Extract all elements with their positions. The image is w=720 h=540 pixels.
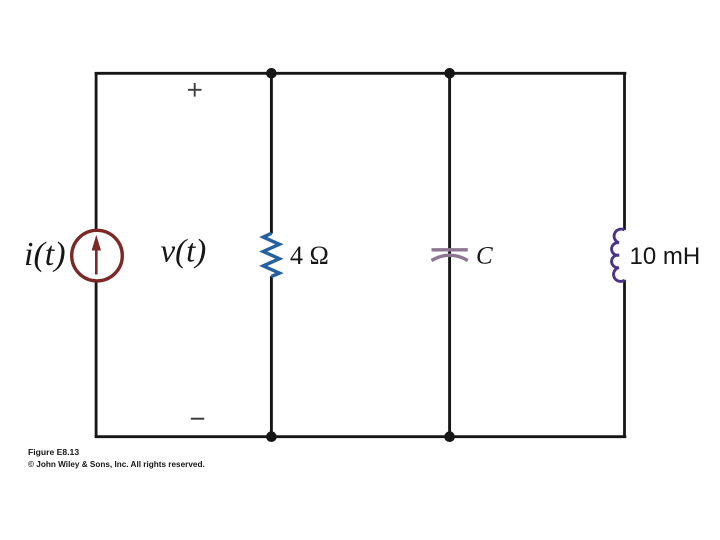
wire: bottom rail xyxy=(95,435,627,438)
node: top junction at capacitor branch xyxy=(444,68,455,79)
svg-text:i(t): i(t) xyxy=(24,236,66,273)
label minus sign of v(t) xyxy=(191,418,205,420)
node: bottom junction at capacitor branch xyxy=(444,431,455,442)
svg-text:Figure E8.13: Figure E8.13 xyxy=(28,447,79,457)
wire: inductor branch leads xyxy=(623,72,626,230)
capacitor C: top plate xyxy=(432,248,468,251)
inductor L = 10 mH: coil xyxy=(612,229,625,281)
wire: resistor branch leads xyxy=(270,72,273,234)
svg-text:© John Wiley & Sons, Inc. All: © John Wiley & Sons, Inc. All rights res… xyxy=(28,460,205,469)
wire: top rail xyxy=(95,72,627,75)
wire: left branch (current source leads) xyxy=(95,72,98,438)
resistor R = 4 ohm: zigzag xyxy=(263,233,279,276)
capacitor C: bottom curved plate xyxy=(432,255,468,260)
svg-text:10 mH: 10 mH xyxy=(630,243,701,270)
svg-text:C: C xyxy=(476,242,493,269)
node: bottom junction at resistor branch xyxy=(266,431,277,442)
current source i(t): arrow xyxy=(92,235,101,275)
label plus sign of v(t) xyxy=(188,83,202,97)
wire: capacitor branch xyxy=(448,72,451,438)
svg-text:4 Ω: 4 Ω xyxy=(290,241,329,270)
node: top junction at resistor branch xyxy=(266,68,277,79)
current source i(t): circle xyxy=(72,230,123,281)
svg-text:v(t): v(t) xyxy=(161,234,207,270)
